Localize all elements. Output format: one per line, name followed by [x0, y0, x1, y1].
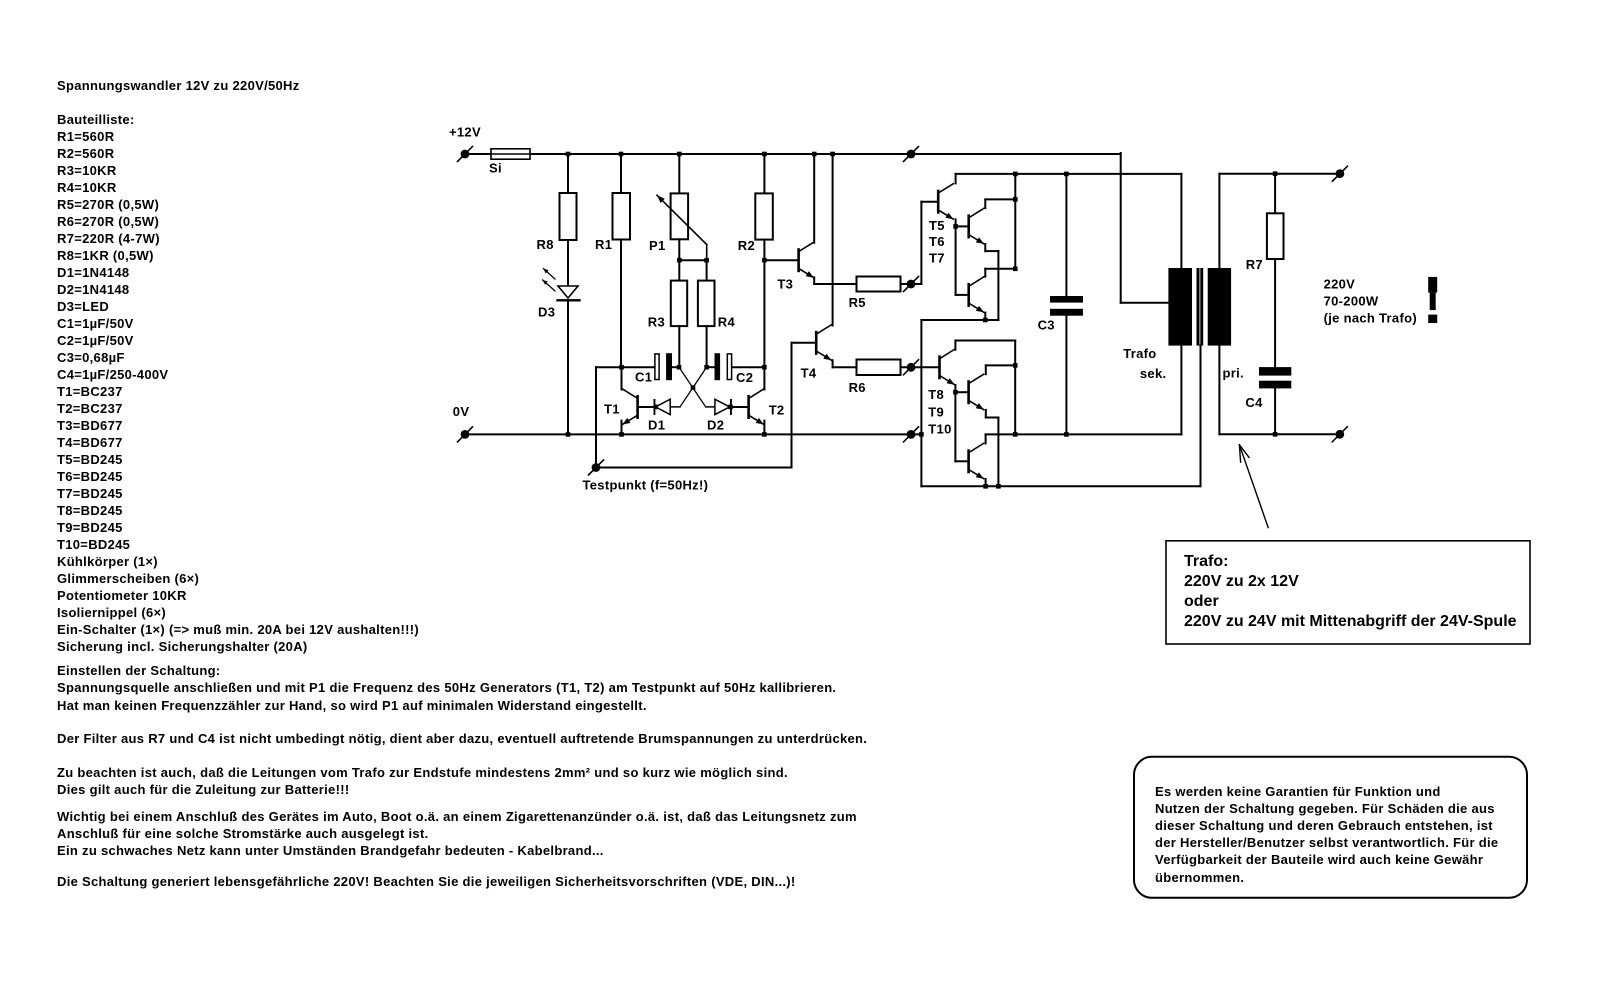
junction dots below P1 — [677, 258, 709, 263]
label Testpunkt — [583, 478, 709, 493]
wire T6 collector — [985, 199, 1015, 208]
wire T5 collector — [955, 174, 957, 184]
transformer winding sek — [1168, 268, 1192, 346]
wire cross-couple C1 to T2 base — [679, 367, 715, 407]
wire T9 collector — [986, 365, 1015, 374]
wire R8 top — [567, 154, 569, 193]
wire cross-couple C2 to T1 base — [670, 367, 706, 407]
resistor R3 — [671, 281, 687, 327]
junction dot crossing — [691, 385, 696, 390]
label R2 — [738, 238, 755, 253]
svg-text:R2: R2 — [738, 238, 755, 253]
capacitor C1 — [655, 353, 679, 380]
wire T9 emitter — [986, 410, 999, 486]
terminal +12V — [458, 147, 473, 162]
svg-text:C2: C2 — [736, 370, 753, 385]
label R4 — [718, 315, 736, 330]
wire P1 bottom — [679, 239, 706, 260]
junction dot C1 right — [677, 365, 682, 370]
label T1 — [604, 402, 620, 417]
terminal R6 output — [904, 360, 919, 375]
wire R4 bottom — [706, 326, 708, 367]
wire pri bottom — [1219, 346, 1339, 435]
svg-text:70-200W: 70-200W — [1324, 294, 1379, 309]
transistor T3 — [797, 242, 813, 277]
svg-text:R8: R8 — [537, 237, 554, 252]
svg-text:C1: C1 — [635, 370, 652, 385]
wire pri top — [1219, 174, 1340, 268]
svg-text:C3: C3 — [1038, 318, 1055, 333]
svg-text:T5: T5 — [929, 218, 945, 233]
svg-text:D1: D1 — [648, 418, 665, 433]
transistor T8 — [938, 349, 954, 384]
junction dot R7 top — [1273, 171, 1278, 176]
wire core to 0V bus — [1200, 346, 1202, 487]
junction dot T7 emitter — [983, 318, 988, 323]
wire rail A — [956, 174, 1182, 268]
svg-text:C4: C4 — [1245, 395, 1263, 410]
transistor T2 — [747, 367, 764, 424]
label P1 — [649, 238, 666, 253]
wire testpunkt vertical — [595, 367, 597, 467]
wire T10 collector — [985, 434, 987, 443]
transistor T7 — [967, 277, 983, 312]
wire R3 bottom — [678, 326, 680, 367]
transistor T4 — [815, 325, 831, 360]
wire R3 top — [678, 260, 680, 280]
junction dots emitter bus — [983, 484, 1000, 489]
label C1 — [635, 370, 652, 385]
terminal output top — [1332, 166, 1347, 181]
junction dot T7 collector — [1013, 267, 1018, 272]
junction dot C2 left — [704, 365, 709, 370]
disclaimer box — [1134, 757, 1527, 898]
wire T3 collector — [813, 154, 815, 243]
transistor T6 — [967, 208, 983, 243]
svg-text:T8: T8 — [928, 387, 944, 402]
wire R7 to C4 — [1274, 259, 1276, 367]
junction dot T6 collector — [1013, 197, 1018, 202]
svg-text:sek.: sek. — [1140, 366, 1167, 381]
wire 0V rail — [465, 433, 921, 435]
label R5 — [849, 295, 866, 310]
svg-text:D2: D2 — [707, 418, 724, 433]
wire D3 to 0V — [567, 300, 569, 434]
label T6 — [929, 234, 945, 249]
label 220V — [1324, 277, 1356, 292]
svg-text:T10: T10 — [928, 422, 951, 437]
wire T7 emitter — [984, 313, 986, 320]
svg-text:(je nach Trafo): (je nach Trafo) — [1324, 310, 1417, 325]
wire T6 base — [956, 225, 968, 227]
terminal R5 output — [904, 277, 919, 292]
svg-text:R1: R1 — [595, 237, 612, 252]
junction dot T9 base — [953, 390, 958, 395]
capacitor C4 — [1259, 367, 1291, 388]
wire C1 left row — [596, 366, 654, 368]
wire T7 collector — [985, 269, 1015, 277]
resistor R6 — [857, 360, 901, 376]
label T8 — [928, 387, 944, 402]
label T5 — [929, 218, 945, 233]
junction dot C3 bottom — [1064, 432, 1069, 437]
wire collector bus upper — [1014, 174, 1016, 269]
junction dot T6 base — [953, 224, 958, 229]
svg-text:+12V: +12V — [449, 125, 481, 140]
resistor R1 — [613, 193, 631, 240]
wire R6 to T8 base — [901, 366, 939, 368]
label R1 — [595, 237, 612, 252]
label 0V — [453, 404, 470, 419]
label R3 — [648, 315, 665, 330]
wire R8 to D3 — [567, 240, 569, 286]
wire T9 base — [955, 391, 967, 393]
wire C4 bottom — [1274, 388, 1276, 434]
label 70-200W — [1324, 294, 1379, 309]
arrow to trafo note — [1239, 445, 1268, 528]
terminal on +12V rail — [904, 147, 919, 162]
transistor T5 — [937, 184, 953, 219]
svg-text:Si: Si — [489, 161, 502, 176]
wire testpunkt to T4 base — [596, 343, 815, 468]
wire R1 bottom — [620, 240, 622, 368]
transformer core — [1197, 268, 1204, 346]
svg-text:T4: T4 — [801, 366, 817, 381]
label T7 — [929, 250, 945, 265]
wire T8 emitter chain — [954, 385, 956, 461]
label D3 — [538, 305, 555, 320]
resistor R8 — [560, 193, 577, 240]
svg-text:220V: 220V — [1324, 277, 1356, 292]
label D2 — [707, 418, 724, 433]
wire T4 collector — [832, 154, 834, 326]
terminal on 0V rail — [904, 427, 919, 442]
resistor R4 — [698, 281, 715, 327]
wire T10 base — [955, 460, 967, 462]
terminal 0V — [458, 427, 473, 442]
junction dot R2/T3 — [762, 258, 767, 263]
resistor R5 — [857, 277, 901, 292]
label T4 — [801, 366, 817, 381]
capacitor C2 — [707, 353, 765, 380]
junction dot T9 collector — [1013, 363, 1018, 368]
transistor T9 — [967, 374, 983, 409]
label +12V — [449, 125, 481, 140]
fuse Si — [491, 149, 538, 159]
svg-text:R3: R3 — [648, 315, 665, 330]
svg-text:D3: D3 — [538, 305, 555, 320]
transistor T1 — [622, 367, 639, 424]
label T10 — [928, 422, 951, 437]
svg-text:Trafo: Trafo — [1123, 346, 1156, 361]
wire C3 top — [1065, 174, 1067, 296]
svg-text:T9: T9 — [928, 405, 944, 420]
wire rail B — [986, 346, 1182, 435]
junction dot C2 right — [762, 365, 767, 370]
wire R2 top — [763, 154, 765, 193]
resistor R7 — [1267, 213, 1284, 259]
svg-text:R5: R5 — [849, 295, 866, 310]
svg-text:R7: R7 — [1246, 257, 1263, 272]
wire T2 emitter to 0V — [763, 421, 765, 435]
terminal Testpunkt — [589, 460, 604, 475]
diode D2 — [715, 399, 747, 415]
wire R2 bottom — [763, 240, 765, 368]
junction dots 0V rail — [566, 432, 924, 437]
LED D3 — [543, 269, 580, 301]
svg-text:T7: T7 — [929, 250, 945, 265]
junction dot C4 bottom — [1273, 432, 1278, 437]
wire C3 bottom — [1065, 316, 1067, 435]
label sek. — [1140, 366, 1167, 381]
trafo note box — [1166, 541, 1530, 644]
wire T5 emitter chain — [955, 219, 957, 295]
svg-text:Testpunkt (f=50Hz!): Testpunkt (f=50Hz!) — [583, 478, 709, 493]
label C3 — [1038, 318, 1055, 333]
svg-text:pri.: pri. — [1223, 366, 1244, 381]
svg-text:R4: R4 — [718, 315, 736, 330]
svg-text:T3: T3 — [777, 277, 793, 292]
label C4 — [1245, 395, 1263, 410]
wire emitter bus top — [921, 319, 998, 321]
junction dot node T1 collector — [619, 365, 624, 370]
terminal output bottom — [1332, 427, 1347, 442]
wire T3 emitter to R5 — [814, 277, 856, 284]
wire +12V rail — [465, 153, 1168, 303]
wire T4 emitter to R6 — [833, 360, 857, 367]
label T2 — [769, 403, 785, 418]
svg-text:R6: R6 — [849, 380, 866, 395]
wire T10 emitter — [985, 479, 987, 486]
wire T7 base — [956, 294, 968, 296]
label C2 — [736, 370, 753, 385]
svg-text:P1: P1 — [649, 238, 666, 253]
junction dot T8 collector bus — [1013, 432, 1018, 437]
wire T1 emitter to 0V — [621, 421, 623, 435]
junction dots rail A — [1013, 172, 1069, 177]
junction dots +12V rail — [566, 152, 835, 157]
capacitor C3 — [1050, 296, 1083, 316]
wire R7 top — [1274, 174, 1276, 214]
label R7 — [1246, 257, 1263, 272]
label je nach Trafo — [1324, 310, 1417, 325]
label T3 — [777, 277, 793, 292]
label Trafo — [1123, 346, 1156, 361]
svg-text:T6: T6 — [929, 234, 945, 249]
diode D1 — [639, 399, 670, 415]
label R8 — [537, 237, 554, 252]
wire T6 emitter — [985, 244, 998, 320]
exclamation mark — [1428, 277, 1437, 323]
wire emitter bus — [921, 320, 1200, 486]
label T9 — [928, 405, 944, 420]
svg-text:T2: T2 — [769, 403, 785, 418]
label pri. — [1223, 366, 1244, 381]
svg-text:0V: 0V — [453, 404, 470, 419]
label R6 — [849, 380, 866, 395]
wire P1 top — [678, 154, 680, 193]
resistor R2 — [755, 193, 773, 239]
wire R5 to T5 base — [901, 202, 937, 284]
label D1 — [648, 418, 665, 433]
wire T3 base — [764, 259, 797, 261]
potentiometer P1 — [657, 193, 707, 260]
wire R1 top — [620, 154, 622, 193]
transformer winding pri — [1208, 268, 1231, 346]
wire T8 collector — [955, 341, 1015, 435]
label Si — [489, 161, 502, 176]
transistor T10 — [967, 443, 983, 478]
wire R4 top — [706, 260, 708, 280]
svg-text:T1: T1 — [604, 402, 620, 417]
